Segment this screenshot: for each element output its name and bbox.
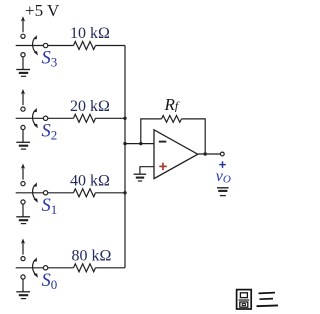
- wire: bus to op-amp inverting input: [125, 143, 154, 145]
- switch S2 toggle arc arrows: [33, 108, 38, 128]
- output polarity + mark: [219, 161, 226, 168]
- wire: op-amp output: [198, 153, 221, 155]
- junction: 40k at bus: [123, 191, 126, 194]
- summing bus wire (vertical): [124, 46, 126, 268]
- resistor Rf (feedback): [162, 116, 182, 123]
- ground symbol below switch S3: [16, 57, 30, 76]
- svg-text:10 kΩ: 10 kΩ: [70, 25, 110, 42]
- ground symbol below switch S2: [16, 130, 30, 149]
- op-amp inverting input (-) mark: [159, 141, 167, 143]
- op-amp non-inverting input (+) mark: [159, 163, 167, 170]
- switch S0 pole and arm: [16, 266, 48, 270]
- svg-text:Rf: Rf: [164, 95, 180, 114]
- ground symbol at output reference: [217, 188, 229, 196]
- ground symbol at op-amp + input: [134, 174, 147, 181]
- switch S2 bottom throw terminal (to ground): [21, 125, 25, 129]
- +5V supply arrow feeding switch S1: [21, 164, 25, 180]
- figure caption: CJK "Figure 3" (drawn glyphs): [237, 290, 278, 309]
- switch S3 bottom throw terminal (to ground): [21, 53, 25, 57]
- junction: feedback tap node: [139, 142, 142, 145]
- resistor 80 kOhm: [74, 264, 96, 272]
- wire: non-inverting input to ground: [140, 167, 154, 174]
- wire: switch S2 pole to resistor: [48, 117, 74, 119]
- switch S1 toggle arc arrows: [33, 182, 38, 202]
- ground symbol below switch S1: [16, 204, 30, 223]
- switch S2 pole and arm: [16, 116, 48, 120]
- wire: switch S3 pole to resistor: [48, 45, 74, 47]
- switch S0 top throw terminal (to +5V): [21, 257, 25, 261]
- wire: switch S1 pole to resistor: [48, 192, 74, 194]
- wire: resistor 10k to summing bus: [96, 45, 126, 47]
- switch S2 top throw terminal (to +5V): [21, 107, 25, 111]
- switch S0 toggle arc arrows: [33, 257, 38, 277]
- switch S3 pole and arm: [16, 43, 48, 47]
- op-amp U1 triangle: [154, 130, 198, 179]
- output terminal circle: [220, 152, 224, 156]
- svg-text:20 kΩ: 20 kΩ: [70, 98, 110, 115]
- switch S3 top throw terminal (to +5V): [21, 34, 25, 38]
- +5V supply arrow feeding switch S2: [21, 89, 25, 105]
- svg-text:+5 V: +5 V: [25, 1, 60, 20]
- switch S1 top throw terminal (to +5V): [21, 182, 25, 186]
- junction: output node: [204, 152, 207, 155]
- svg-text:80 kΩ: 80 kΩ: [72, 247, 112, 264]
- switch S1 bottom throw terminal (to ground): [21, 200, 25, 204]
- switch S1 pole and arm: [16, 191, 48, 195]
- resistor 10 kOhm: [74, 42, 96, 50]
- wire: resistor 40k to summing bus: [96, 192, 126, 194]
- junction: 20k at bus: [123, 117, 126, 120]
- wire: feedback riser from inverting node: [141, 119, 162, 144]
- wire: resistor 20k to summing bus: [96, 117, 126, 119]
- ground symbol below switch S0: [16, 279, 30, 298]
- resistor 20 kOhm: [74, 114, 96, 122]
- wire: resistor 80k to summing bus: [96, 267, 126, 269]
- wire: Rf to output node: [182, 119, 206, 154]
- wire: switch S0 pole to resistor: [48, 267, 74, 269]
- resistor 40 kOhm: [74, 189, 96, 197]
- svg-text:40 kΩ: 40 kΩ: [70, 172, 110, 189]
- junction: op-amp tap at bus: [123, 142, 126, 145]
- +5V supply arrow feeding switch S3: [21, 16, 25, 32]
- switch S0 bottom throw terminal (to ground): [21, 275, 25, 279]
- +5V supply arrow feeding switch S0: [21, 239, 25, 255]
- switch S3 toggle arc arrows: [33, 35, 38, 55]
